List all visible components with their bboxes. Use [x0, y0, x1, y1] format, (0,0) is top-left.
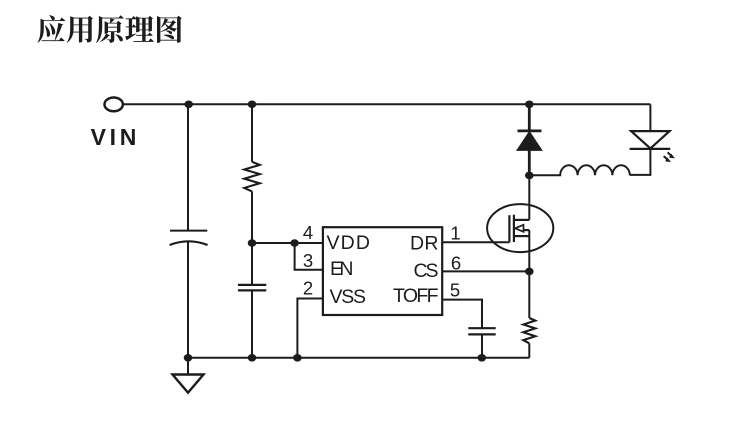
svg-text:VSS: VSS	[330, 286, 367, 308]
svg-text:VDD: VDD	[327, 232, 371, 254]
svg-text:2: 2	[303, 277, 313, 298]
svg-text:1: 1	[450, 223, 460, 244]
svg-text:6: 6	[451, 252, 461, 273]
svg-text:CS: CS	[414, 260, 439, 282]
svg-text:TOFF: TOFF	[393, 285, 439, 307]
svg-text:5: 5	[450, 280, 460, 301]
svg-text:VIN: VIN	[91, 124, 140, 150]
svg-text:EN: EN	[330, 258, 354, 280]
svg-text:4: 4	[303, 222, 313, 243]
svg-text:3: 3	[303, 250, 313, 271]
svg-text:DR: DR	[410, 233, 439, 255]
